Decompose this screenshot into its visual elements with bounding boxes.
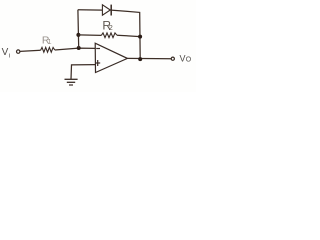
- label Vo: [180, 53, 192, 63]
- wire R1 to node A and op-amp inverting input: [55, 48, 96, 50]
- wire R2 to node C: [117, 35, 140, 36]
- svg-text:1: 1: [48, 39, 52, 46]
- resistor R2: [101, 33, 117, 38]
- svg-text:O: O: [186, 56, 192, 63]
- wire left vertical feedback: [77, 10, 80, 48]
- svg-text:2: 2: [109, 23, 113, 32]
- svg-text:i: i: [9, 52, 10, 59]
- label R1: [42, 35, 52, 47]
- op-amp U1: [95, 43, 127, 72]
- node D (output junction): [138, 57, 142, 61]
- wire top left to diode anode: [78, 9, 103, 11]
- wire diode cathode to top right corner and down: [111, 10, 140, 59]
- label R2: [102, 19, 112, 33]
- label Vi: [2, 47, 11, 59]
- svg-text:V: V: [2, 47, 9, 58]
- input terminal: [17, 50, 20, 53]
- wire input to R1: [20, 50, 40, 51]
- wire op-amp output to terminal: [127, 57, 171, 59]
- node A (inverting input junction): [77, 46, 81, 50]
- node C (R2 to output junction): [138, 35, 142, 39]
- svg-text:V: V: [180, 53, 186, 63]
- node B (R2 branch junction): [76, 33, 80, 37]
- wire node B to R2: [78, 34, 101, 37]
- resistor R1: [41, 47, 55, 52]
- wire non-inverting input to ground: [71, 65, 95, 80]
- ground: [65, 79, 78, 85]
- diode D1: [102, 5, 111, 16]
- output terminal: [171, 57, 174, 60]
